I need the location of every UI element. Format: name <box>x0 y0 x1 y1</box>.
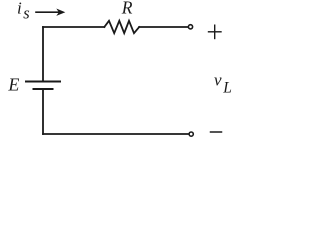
wire bottom horizontal <box>43 133 188 135</box>
svg-text:v: v <box>214 71 222 90</box>
svg-text:i: i <box>17 0 22 18</box>
plus sign (v_L polarity) <box>209 25 222 38</box>
svg-text:L: L <box>222 80 232 97</box>
minus sign (v_L polarity) <box>211 131 222 133</box>
resistor R <box>104 21 139 33</box>
wire left vertical (top corner to battery) <box>42 27 44 81</box>
svg-text:s: s <box>23 4 29 23</box>
terminal top-right (open circle) <box>188 25 192 29</box>
wire left vertical (battery to bottom corner) <box>42 90 44 134</box>
wire top-left horizontal (corner to resistor) <box>43 26 104 28</box>
current arrow i_s <box>36 9 65 16</box>
wire resistor to top terminal <box>139 26 187 28</box>
battery E long plate <box>26 81 60 83</box>
svg-text:R: R <box>121 0 133 17</box>
battery E short plate <box>34 88 53 90</box>
terminal bottom-right (open circle) <box>189 132 193 136</box>
svg-text:E: E <box>7 75 19 95</box>
